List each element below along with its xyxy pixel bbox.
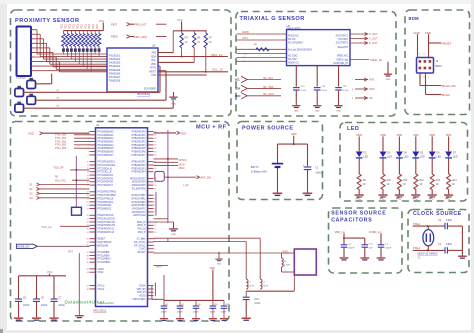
svg-text:0.1uF: 0.1uF <box>343 90 349 92</box>
svg-text:PTC7/RGPIO7: PTC7/RGPIO7 <box>98 185 114 187</box>
battery BATT1 <box>272 163 283 165</box>
svg-text:NC/DVDD_IO: NC/DVDD_IO <box>333 62 348 65</box>
svg-text:6.8pF: 6.8pF <box>446 220 452 222</box>
svg-text:BKGD: BKGD <box>442 93 450 97</box>
svg-text:MC13211: MC13211 <box>94 309 107 313</box>
svg-text:VCC: VCC <box>177 18 183 22</box>
connector J1 BDM box <box>417 58 434 74</box>
svg-text:AVDD: AVDD <box>242 31 249 34</box>
svg-text:100nF: 100nF <box>58 305 65 307</box>
svg-text:SDA_1V: SDA_1V <box>211 53 223 57</box>
svg-text:VDD: VDD <box>291 132 297 136</box>
svg-text:ANT_SW: ANT_SW <box>201 177 212 180</box>
ground (C8) <box>160 318 168 319</box>
svg-text:R14: R14 <box>452 179 457 182</box>
ground (LED3) <box>395 194 404 196</box>
svg-text:PTE3/TPM1CH3: PTE3/TPM1CH3 <box>98 225 116 227</box>
svg-text:NODE_ID0: NODE_ID0 <box>17 246 30 249</box>
wire NODE_ID0 <box>37 245 89 247</box>
wire U5 bottom pin 3 <box>338 66 340 87</box>
wire LED2 feed <box>382 136 384 151</box>
wire U5 bottom pin 2 <box>316 66 318 87</box>
svg-text:0.1uF: 0.1uF <box>301 90 307 92</box>
svg-text:GPIO6/ANT2: GPIO6/ANT2 <box>132 211 146 214</box>
svg-text:ATTN: ATTN <box>150 67 156 70</box>
svg-text:SPSCK/GPIO3: SPSCK/GPIO3 <box>130 178 146 180</box>
svg-text:RF_XTAL2: RF_XTAL2 <box>134 244 146 247</box>
IC U5 box <box>287 30 351 66</box>
LED D2 <box>356 152 363 158</box>
wire connector pin 2 <box>31 33 35 35</box>
left margin strip <box>0 0 7 333</box>
LED D3 <box>380 152 387 158</box>
svg-text:C16: C16 <box>255 299 260 301</box>
bottom-left corner mark <box>0 329 3 333</box>
svg-text:PTE1/RxD1/CLK: PTE1/RxD1/CLK <box>98 219 116 221</box>
svg-text:INT1: INT1 <box>243 37 249 40</box>
wire LED4 to resistor <box>415 159 417 175</box>
wire KBD3 <box>74 144 90 146</box>
svg-text:J1: J1 <box>436 59 439 63</box>
svg-text:PTD0/RXD/TPM1: PTD0/RXD/TPM1 <box>98 192 117 194</box>
capacitor C7 <box>51 298 58 300</box>
wire VCC to rail <box>181 22 183 31</box>
svg-text:LED: LED <box>437 156 442 159</box>
svg-text:PTE2/TPM1CH2: PTE2/TPM1CH2 <box>98 222 116 224</box>
block frame: BDM <box>405 10 470 115</box>
loop link (right pins) <box>155 171 165 181</box>
svg-text:SDA: SDA <box>151 55 156 58</box>
svg-text:GND: GND <box>171 234 176 236</box>
wire SDA net <box>158 56 228 58</box>
svg-text:R21: R21 <box>92 24 95 29</box>
wire C9 to ground <box>179 308 181 318</box>
svg-text:XTAL2: XTAL2 <box>98 285 106 288</box>
svg-text:Sleep/INT: Sleep/INT <box>337 46 348 49</box>
svg-text:CON10: CON10 <box>17 76 26 80</box>
wire from E1 <box>36 83 52 85</box>
svg-text:DVDD_ms: DVDD_ms <box>369 231 382 234</box>
wire VDD group riser <box>163 275 165 300</box>
wire LED6 feed <box>448 136 450 151</box>
wire staircase net 6 <box>35 51 54 53</box>
svg-text:INT2: INT2 <box>369 87 375 91</box>
svg-text:BKGD_MS: BKGD_MS <box>442 84 456 88</box>
ground (C7) <box>377 257 386 258</box>
svg-text:IRQ: IRQ <box>152 52 156 55</box>
svg-text:PTA7/KBD7/A7: PTA7/KBD7/A7 <box>98 154 115 157</box>
svg-text:PTB1/AD1P1: PTB1/AD1P1 <box>132 134 147 137</box>
svg-text:CLOCK SOURCE: CLOCK SOURCE <box>413 211 462 217</box>
svg-text:PTG3/KBI11: PTG3/KBI11 <box>98 262 112 264</box>
svg-text:GND: GND <box>294 110 299 112</box>
wire C11 to ground <box>212 308 214 318</box>
svg-text:LED: LED <box>420 156 425 159</box>
svg-text:GND: GND <box>217 264 222 266</box>
wire power rail <box>278 143 308 145</box>
svg-text:X_OUT: X_OUT <box>369 32 378 36</box>
svg-text:PTC0/RxD2/SCL: PTC0/RxD2/SCL <box>98 162 116 164</box>
wire MCU_IRQ <box>72 179 90 181</box>
svg-text:PROXIMITY SENSOR: PROXIMITY SENSOR <box>15 18 80 24</box>
wire L1 to antenna <box>281 267 283 272</box>
svg-text:PTA3/KBD3/A3: PTA3/KBD3/A3 <box>98 140 115 143</box>
svg-text:PTD1/TXD/TPM2: PTD1/TXD/TPM2 <box>98 195 117 197</box>
ground (C13) <box>292 105 300 106</box>
capacitor C12 <box>223 300 225 305</box>
svg-text:PRX_IRQ: PRX_IRQ <box>134 35 147 39</box>
svg-text:VDD2: VDD2 <box>98 269 105 271</box>
wire PAO run <box>154 252 282 254</box>
svg-text:I2C_SDO: I2C_SDO <box>263 93 274 96</box>
ground (C11) <box>209 318 217 319</box>
wire staircase net 1 <box>35 29 38 31</box>
wire from E3 <box>36 99 167 101</box>
wire antenna top link <box>282 252 295 254</box>
svg-text:VDD: VDD <box>429 133 435 137</box>
wire BDM gnd feed <box>417 34 419 57</box>
svg-text:XTAL1: XTAL1 <box>98 288 106 291</box>
wire LED3 to resistor <box>398 159 400 175</box>
wire SPSCK <box>154 158 179 160</box>
svg-text:PIRQ: PIRQ <box>111 35 118 39</box>
ground (LED5) <box>428 194 437 196</box>
svg-text:100nF: 100nF <box>385 247 392 249</box>
wire VCC RF bypass feed <box>212 270 214 301</box>
svg-text:R21: R21 <box>84 24 87 29</box>
svg-text:PTA2_KB2: PTA2_KB2 <box>55 140 67 143</box>
wire C13 to ground <box>295 90 297 105</box>
svg-text:PTB4/AD1P4: PTB4/AD1P4 <box>132 171 147 174</box>
resistor R13 (LED) <box>430 174 434 190</box>
LED D4 <box>396 152 403 158</box>
svg-text:MOSI: MOSI <box>179 163 185 166</box>
wire BKGD_MS <box>419 73 421 86</box>
svg-text:R21: R21 <box>88 24 91 29</box>
svg-text:R21: R21 <box>61 24 64 29</box>
svg-text:PS2/ELE2: PS2/ELE2 <box>109 58 121 61</box>
block frame: POWER SOURCE <box>237 122 323 200</box>
capacitor C15 <box>335 87 342 89</box>
resistor R12 (LED) <box>414 174 418 190</box>
svg-text:PTD4/MOSI1: PTD4/MOSI1 <box>98 205 113 207</box>
svg-text:POWER SOURCE: POWER SOURCE <box>242 126 294 132</box>
svg-text:VDD_B5: VDD_B5 <box>136 289 146 291</box>
junction dots right bus <box>167 158 169 160</box>
J1 pin 5 <box>424 67 427 70</box>
crystal Y1 <box>423 230 434 246</box>
wire from E4 <box>24 107 174 109</box>
wire C10 to ground <box>195 308 197 318</box>
svg-text:10nH: 10nH <box>248 285 254 287</box>
svg-text:I2C_SDA: I2C_SDA <box>263 86 274 89</box>
ground (C5) <box>360 257 369 258</box>
wire U5 bottom pin 1 <box>295 66 297 87</box>
svg-text:SENSOR SOURCE: SENSOR SOURCE <box>331 211 386 217</box>
svg-text:RFOUT: RFOUT <box>137 252 146 254</box>
capacitor C4 <box>341 244 348 246</box>
top margin strip <box>0 0 474 4</box>
svg-text:PS5/ELE5: PS5/ELE5 <box>109 69 121 72</box>
resistor R10 (LED) <box>381 174 385 190</box>
svg-text:VDD: VDD <box>413 133 419 137</box>
ground (LED6) <box>444 194 453 196</box>
svg-text:PTB3/AD1P3: PTB3/AD1P3 <box>132 167 147 170</box>
capacitor C8 <box>163 300 165 305</box>
wire LED4 feed <box>415 136 417 151</box>
net flag RF_CTRL <box>164 176 196 178</box>
svg-text:MCU + RF: MCU + RF <box>196 125 227 131</box>
svg-text:BATT1: BATT1 <box>251 165 259 169</box>
svg-text:VDD: VDD <box>380 133 386 137</box>
inductor L3 <box>260 279 262 289</box>
wire LED5 feed <box>431 136 433 151</box>
svg-text:Z_OUT: Z_OUT <box>369 41 378 45</box>
wire LED2 to resistor <box>382 159 384 175</box>
antenna element <box>294 249 316 275</box>
capacitor C7 <box>378 244 385 246</box>
svg-text:ADDR CS: ADDR CS <box>288 61 299 64</box>
vertical bus (left) <box>75 156 77 210</box>
svg-text:SDO: SDO <box>235 95 240 98</box>
svg-text:PTA0_KB0: PTA0_KB0 <box>55 134 67 137</box>
wire staircase net 2 <box>35 33 41 35</box>
svg-text:R10: R10 <box>387 179 392 182</box>
svg-text:VDD1/VDD0: VDD1/VDD0 <box>132 299 146 301</box>
capacitor C11 <box>212 300 214 305</box>
inductor L1 <box>282 258 284 267</box>
svg-text:PTA6/KBD6/A6: PTA6/KBD6/A6 <box>98 151 115 154</box>
svg-text:GPIO7/LNA: GPIO7/LNA <box>133 214 146 217</box>
capacitor C2 <box>444 223 446 229</box>
svg-text:PRX_INT: PRX_INT <box>134 23 146 27</box>
svg-text:GPIO2/TMR2: GPIO2/TMR2 <box>131 198 146 200</box>
svg-text:PTA0/KBD0/A0: PTA0/KBD0/A0 <box>98 130 115 133</box>
vertical bus (right) <box>167 130 169 223</box>
right margin strip <box>471 0 474 333</box>
wire VDD group to rail <box>152 298 164 300</box>
wire U5 left pin row 1 <box>237 33 287 35</box>
svg-text:GPIO1/TMR1: GPIO1/TMR1 <box>131 195 146 197</box>
wire antenna bottom link <box>293 275 295 291</box>
svg-text:R21: R21 <box>96 24 99 29</box>
wire RST drop <box>78 253 80 315</box>
wire VBAT row <box>154 265 169 267</box>
svg-text:PTE5/RGPIO13: PTE5/RGPIO13 <box>98 232 115 234</box>
wire E1 riser <box>51 74 53 84</box>
ground (C9) <box>176 318 184 319</box>
svg-text:RESET: RESET <box>442 42 452 46</box>
bottom margin strip <box>0 330 474 333</box>
svg-text:VDD: VDD <box>356 133 362 137</box>
ground (C1) <box>303 193 313 195</box>
svg-text:PTB3/AD1P3: PTB3/AD1P3 <box>132 140 147 143</box>
svg-text:U1: U1 <box>96 123 100 127</box>
wire LED4 to ground <box>415 190 417 195</box>
capacitor C1 <box>304 166 312 168</box>
svg-text:PS1/ELE1: PS1/ELE1 <box>109 54 121 57</box>
svg-text:100uF: 100uF <box>315 170 323 174</box>
J1 pin 3 <box>429 60 432 63</box>
svg-text:GND: GND <box>414 31 420 35</box>
wire U5 Z_OUT <box>350 42 368 44</box>
wire C7 drop <box>380 233 382 244</box>
J1 pin 4 <box>419 67 422 70</box>
wire KBD4 <box>74 147 90 149</box>
svg-text:PTB6/AD1P6: PTB6/AD1P6 <box>132 151 147 154</box>
svg-text:PTB2/AD1P2: PTB2/AD1P2 <box>132 137 147 140</box>
wire C6 to ground <box>36 302 38 318</box>
svg-text:PTC4/RGPIO4: PTC4/RGPIO4 <box>98 175 114 177</box>
wire from E2 <box>24 91 161 93</box>
wire C4 drop <box>343 238 345 244</box>
electrode pad E2 <box>15 89 24 97</box>
block frame: CLOCK SOURCE <box>408 210 469 273</box>
svg-text:CLKO: CLKO <box>139 249 146 251</box>
svg-text:VCC_ms: VCC_ms <box>42 226 53 229</box>
svg-text:PTA1/KBD1/A1: PTA1/KBD1/A1 <box>98 134 115 137</box>
wire staircase net 5 <box>35 47 50 49</box>
svg-text:RF_XTAL1: RF_XTAL1 <box>134 241 146 244</box>
wire BKGD <box>425 73 427 95</box>
svg-text:4.7nH: 4.7nH <box>284 264 290 266</box>
resistor R5 (I2C pull-up) <box>181 31 183 33</box>
svg-text:RESET: RESET <box>98 239 106 241</box>
capacitor C14 <box>314 87 321 89</box>
ground (battery) <box>273 193 283 195</box>
resistor R7 (I2C pull-up) <box>205 31 207 33</box>
svg-text:GPIO5/ANT1: GPIO5/ANT1 <box>132 207 146 210</box>
svg-text:MCU_IRQ: MCU_IRQ <box>55 180 66 182</box>
block frame: PROXIMITY SENSOR <box>11 10 232 116</box>
wire keypad 2 <box>40 188 90 190</box>
vertical bus segment (VDD rows 2) <box>154 282 156 296</box>
svg-text:PS3/ELE3: PS3/ELE3 <box>109 62 121 65</box>
svg-text:LED: LED <box>347 126 359 132</box>
wire connector pin 1 <box>31 29 35 31</box>
svg-text:PTB7/AD1P7: PTB7/AD1P7 <box>132 154 147 157</box>
wire C1 top <box>307 144 309 166</box>
wire LED3 to ground <box>398 190 400 195</box>
svg-text:GND: GND <box>315 110 320 112</box>
svg-text:PTA4_KB4: PTA4_KB4 <box>55 147 67 150</box>
wire connector pin 8 <box>31 61 35 63</box>
svg-text:1K: 1K <box>436 183 439 186</box>
svg-text:VDD: VDD <box>397 133 403 137</box>
svg-text:VREG A/C: VREG A/C <box>337 54 349 57</box>
wire C12 to ground <box>223 308 225 318</box>
ground (C15) <box>334 105 342 106</box>
wire VCC_ms <box>60 225 90 227</box>
wire C5 drop <box>18 276 20 299</box>
capacitor C10 <box>195 300 197 305</box>
svg-text:MISO: MISO <box>179 167 185 170</box>
svg-text:Datasheet4U.net: Datasheet4U.net <box>65 300 105 305</box>
wire C14 to ground <box>316 90 318 105</box>
svg-text:U3: U3 <box>152 44 156 48</box>
svg-text:PTB4/AD1P4: PTB4/AD1P4 <box>132 144 147 147</box>
wire C16 to ground <box>245 300 247 318</box>
svg-text:BKGD/MS: BKGD/MS <box>98 245 109 247</box>
wire LED6 to resistor <box>448 159 450 175</box>
svg-text:LED: LED <box>387 156 392 159</box>
svg-text:PTG2/KBI10: PTG2/KBI10 <box>98 259 112 261</box>
svg-text:PTG1/KBI9: PTG1/KBI9 <box>98 255 110 257</box>
svg-text:RFIN_P: RFIN_P <box>137 225 146 227</box>
svg-text:ABS07-32.768KHZ: ABS07-32.768KHZ <box>417 253 438 256</box>
wire U5 left pin row 5 <box>237 57 287 59</box>
svg-text:100nF: 100nF <box>23 305 30 307</box>
wire VCC feed <box>102 23 104 31</box>
svg-text:TRIAXIAL G SENSOR: TRIAXIAL G SENSOR <box>240 16 305 22</box>
svg-text:R12: R12 <box>419 179 424 182</box>
wire LED5 to resistor <box>431 159 433 175</box>
svg-text:R21: R21 <box>80 24 83 29</box>
capacitor C9 <box>179 300 181 305</box>
wire battery bottom <box>277 168 279 193</box>
svg-text:1K: 1K <box>403 183 406 186</box>
wire C4 gnd <box>343 247 345 257</box>
wire staircase net 8 <box>35 61 60 63</box>
capacitor C16 <box>245 291 247 297</box>
wire battery top <box>277 144 279 163</box>
svg-text:VDDA: VDDA <box>139 285 146 288</box>
svg-text:R21: R21 <box>65 24 68 29</box>
inductor L2 <box>246 279 248 289</box>
svg-text:VSS2: VSS2 <box>98 272 105 274</box>
wire R5 to SDA net <box>181 48 183 57</box>
wire connector pin 3 <box>31 38 35 40</box>
wire VDD_RF <box>70 169 90 171</box>
wire RF bottom rail <box>246 290 294 292</box>
wire L3 riser <box>259 238 261 279</box>
block frame: SENSOR SOURCE CAPACITORS <box>329 208 403 273</box>
svg-text:SCL: SCL <box>235 79 240 82</box>
svg-text:PS4/ELE4: PS4/ELE4 <box>109 65 121 68</box>
svg-text:R13: R13 <box>436 179 441 182</box>
svg-text:1K: 1K <box>209 41 212 44</box>
svg-text:CT_Bias: CT_Bias <box>137 239 147 241</box>
ground (U1 VSS) <box>169 228 178 229</box>
svg-text:SS_B/GPIO6: SS_B/GPIO6 <box>132 188 146 190</box>
svg-text:VSS: VSS <box>151 74 156 77</box>
ground (C5) <box>14 317 23 319</box>
svg-text:3v Battery AAA: 3v Battery AAA <box>251 171 267 174</box>
wire connector pin 7 <box>31 56 35 58</box>
svg-text:RFIN_M: RFIN_M <box>137 222 146 224</box>
wire RESET stub <box>429 42 442 44</box>
wire PRX_IRQ tail <box>156 36 167 38</box>
wire connector pin 4 <box>31 42 35 44</box>
resistor R14 (LED) <box>447 174 451 190</box>
wire spare row <box>154 218 169 220</box>
electrode pad E4 <box>15 104 24 112</box>
LED D5 <box>412 152 419 158</box>
wire RFIN_P run <box>154 241 247 243</box>
block frame: TRIAXIAL G SENSOR <box>236 12 396 117</box>
svg-text:VDD: VDD <box>151 63 156 66</box>
svg-text:CS: CS <box>369 96 373 100</box>
wire xtal1 <box>413 225 445 227</box>
electrode pad E3 <box>27 96 36 104</box>
wire U5 X_OUT <box>350 33 368 35</box>
svg-text:R21: R21 <box>76 24 79 29</box>
pushbutton SW1 <box>72 207 82 215</box>
wire pin10 drop <box>165 71 167 101</box>
resistor R9 (LED) <box>357 174 361 190</box>
svg-text:BDM: BDM <box>409 16 420 21</box>
svg-text:PTC6/RGPIO6: PTC6/RGPIO6 <box>98 182 114 184</box>
